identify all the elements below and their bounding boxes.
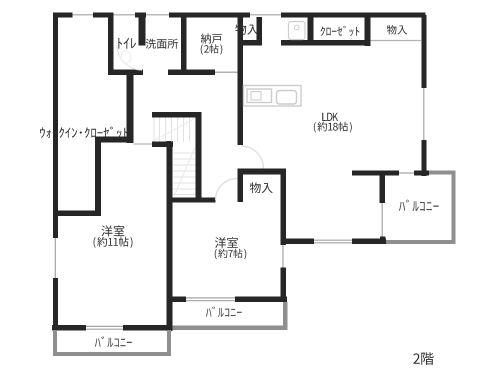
label: walk-in closet [40, 127, 128, 139]
fixture: kitchen counter [244, 86, 302, 107]
wall: alcove south wall [281, 239, 314, 245]
label: bedroom11 [102, 225, 125, 236]
wall: hall north (under storeroom) [168, 70, 215, 76]
label: balcony middle [206, 306, 242, 317]
window alcove south inner line [314, 242, 352, 244]
balcony right (gray outline) [429, 171, 456, 175]
wall: closet south [314, 40, 366, 46]
window LDK to balcony [399, 172, 414, 174]
wall: closet-center west [238, 169, 244, 203]
door: monoire top-right sliding [371, 40, 422, 42]
stair diagonal (lower) [174, 148, 195, 197]
wall: bedroom7 south east seg [235, 297, 287, 303]
door: bedroom11 entry [134, 143, 153, 145]
label: LDK [322, 113, 338, 121]
wall: exterior top seg D [169, 13, 250, 18]
label: closet center [250, 182, 273, 193]
window bedroom7 south outer [186, 297, 235, 299]
label: bedroom11 size [94, 237, 133, 248]
wall: closet-center north [238, 169, 286, 175]
wall: hall south [169, 198, 216, 203]
label: storeroom size [201, 44, 223, 54]
wall: stair north [152, 112, 202, 118]
wall: exterior top seg A [53, 13, 73, 18]
door arc: bedroom7 entry [216, 179, 238, 201]
label: balcony right [399, 200, 439, 212]
window in center-east wall [282, 245, 284, 268]
door arc: toilet door [117, 45, 142, 70]
stair step line (upper) [159, 118, 161, 142]
window in left wall [54, 238, 56, 278]
wall: LDK south wall above balcony [352, 171, 399, 176]
wall: center-east vertical lower [281, 268, 287, 303]
door arc: LDK entry [241, 146, 264, 169]
wall: nook/closet divider [308, 17, 314, 46]
wall: exterior left lower [53, 278, 58, 330]
label: closet top-right [387, 25, 407, 35]
wall: monoire-top east [257, 17, 263, 46]
wall: WIC west lower [95, 137, 101, 216]
wall: nub at balcony west bottom [380, 237, 386, 245]
wall: WIC south [53, 211, 101, 217]
window in top wall (washroom) [146, 14, 169, 16]
wall: balcony-right west wall upper [380, 175, 386, 203]
window in top wall (WIC) [73, 14, 94, 16]
fixture: toilet bowl (faint) [121, 51, 131, 63]
label: bedroom7 size [215, 249, 247, 259]
stair diagonal (upper) [155, 118, 196, 141]
window in right wall (LDK) [423, 88, 425, 140]
label: LDK size [314, 122, 352, 133]
wall: bedroom7 south west seg [172, 297, 186, 303]
wall: monoire-top south [238, 40, 257, 46]
fixture: stove [277, 91, 297, 105]
window bedroom11 south inner [86, 328, 123, 330]
window alcove to balcony [381, 203, 383, 237]
stair step line (lower) [173, 152, 196, 154]
wall: exterior left upper [53, 15, 58, 238]
wall: stair east [196, 112, 202, 198]
window bedroom7 south inner [186, 300, 235, 302]
wall: exterior top seg B [93, 13, 114, 18]
label: closet top-center [235, 24, 258, 35]
window bedroom11 south outer [86, 325, 123, 327]
wall: toilet west [108, 15, 114, 75]
wall: exterior right lower [422, 140, 427, 176]
wall: stair west jog [152, 142, 173, 148]
wall: storeroom west [181, 15, 187, 73]
wall: closet east [365, 17, 371, 46]
wall: exterior top seg E [281, 13, 426, 18]
wall: WIC jog [95, 137, 134, 143]
balcony middle (gray outline) [283, 302, 288, 330]
wall: basin nook south [281, 40, 308, 46]
wall: WIC east [127, 73, 134, 143]
wall: hall/LDK long wall [238, 15, 244, 145]
label: toilet [118, 38, 136, 49]
label: storeroom [201, 33, 222, 43]
label: closet [321, 26, 360, 37]
window in top wall (hall nook) [250, 14, 281, 16]
label: washroom [146, 39, 178, 49]
label: bedroom7 [215, 237, 238, 248]
wall: toilet/washroom divider [139, 13, 146, 46]
stair rail line [153, 118, 155, 142]
door: storeroom entry [215, 71, 238, 73]
label: floor number [413, 352, 433, 365]
wall: toilet south [108, 70, 143, 76]
wall: LDK south-east corner piece [414, 171, 429, 176]
window in top wall (toilet) [114, 14, 136, 16]
fixture: wash basin [289, 22, 306, 40]
wall: bottom south of balcony west part [352, 239, 386, 245]
window alcove south outer line [314, 239, 352, 241]
balcony bottom-left (gray outline) [53, 330, 57, 356]
wall: exterior right upper [422, 15, 427, 88]
wall: bedroom11 south west seg [52, 325, 86, 331]
wall: center-east vertical upper [281, 169, 287, 246]
wall: exterior top seg C [135, 13, 146, 18]
wall: divider bedroom11/east [167, 141, 173, 331]
label: balcony bottom-left [95, 336, 132, 347]
wall: bedroom11 south east seg [123, 325, 173, 331]
